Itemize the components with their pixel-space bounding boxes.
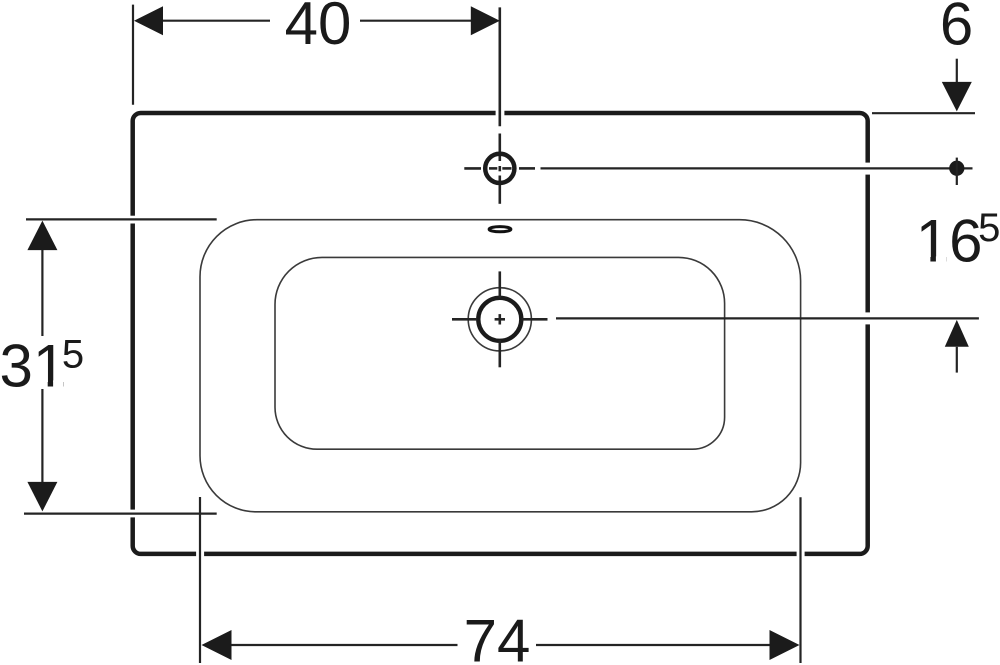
halo gap in outline: top edge at faucet centerline: [496, 107, 505, 119]
halo gap in outline: right edge at faucet hole line: [862, 163, 874, 175]
dimension 74: dimension line right segment: [536, 644, 771, 646]
drain line to right dimension: [556, 317, 979, 319]
halo gap in outline: bottom edge at left extension line: [196, 548, 204, 560]
dimension 31.5: top extension line: [26, 218, 217, 220]
halo gap in outline: right edge at drain line: [862, 312, 874, 324]
basin bottom contour: [275, 257, 725, 449]
halo gap in outline: left edge at upper extension line: [127, 216, 139, 224]
drain centerline horizontal: [452, 318, 548, 321]
dimension 31.5: up arrowhead: [27, 221, 57, 251]
dimension 40: dimension line right segment: [360, 20, 471, 22]
drain outer circle: [468, 288, 531, 351]
faucet hole: [485, 154, 514, 183]
dimension 40: right arrowhead: [471, 6, 500, 35]
dimension 31.5: dimension line upper segment: [41, 250, 43, 336]
washbasin outer outline: [133, 113, 868, 554]
dimension 6: extension line right of outline: [872, 112, 975, 114]
dimension 74: left arrowhead: [202, 630, 232, 660]
dimension 16.5: tail below arrow: [956, 347, 958, 373]
svg-text:40: 40: [285, 0, 352, 57]
dimension 16.5: top dot: [949, 161, 964, 176]
mask: remove foot serif of digit 1 in 16: [919, 256, 930, 262]
dimension 6: leader line: [956, 59, 958, 83]
svg-text:6: 6: [940, 0, 973, 57]
dimension 40: left arrowhead: [134, 6, 163, 35]
halo gap in outline: left edge at lower extension line: [127, 510, 139, 518]
faucet hole centerline vertical: [498, 7, 501, 203]
svg-text:16: 16: [916, 208, 983, 275]
drain centerline vertical: [498, 271, 501, 367]
svg-text:74: 74: [464, 607, 531, 665]
overflow slot: [489, 227, 511, 232]
dimension 40: dimension line left segment: [162, 20, 270, 22]
basin inner rim contour: [200, 220, 801, 512]
mask: remove foot serif of digit 1 in 31: [37, 380, 48, 386]
drain center cross: [495, 314, 505, 324]
dimension 74: right arrowhead: [770, 630, 800, 660]
dimension 6: down arrowhead: [942, 82, 972, 112]
dimension 40: left extension line: [132, 5, 134, 105]
dimension 16.5: up arrowhead: [945, 320, 969, 347]
faucet hole line to dimension dot: [541, 167, 973, 169]
dimension 31.5: bottom extension line: [24, 512, 217, 514]
halo gap in outline: bottom edge at right extension line: [797, 548, 805, 560]
dimension 74: left extension line: [199, 497, 201, 663]
dimension 31.5: dimension line lower segment: [41, 389, 43, 483]
svg-text:5: 5: [62, 332, 84, 376]
dimension 74: right extension line: [799, 497, 801, 663]
dimension 16.5: stub through dot: [956, 158, 958, 185]
drain hole ring: [478, 298, 521, 341]
dimension 74: dimension line left segment: [231, 644, 458, 646]
svg-text:31: 31: [0, 332, 66, 399]
dimension 31.5: down arrowhead: [27, 482, 57, 512]
faucet hole centerline horizontal: [464, 167, 535, 170]
svg-text:5: 5: [978, 206, 1000, 250]
